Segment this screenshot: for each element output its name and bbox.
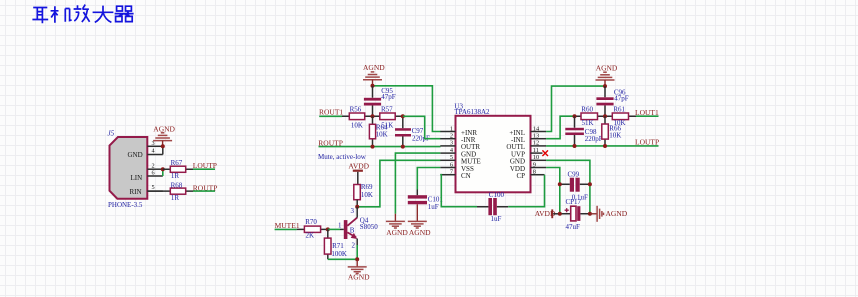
junction R66 bottom xyxy=(603,144,607,148)
resistor R68 xyxy=(147,182,193,202)
ground AGND pin4 xyxy=(386,214,409,237)
svg-text:7: 7 xyxy=(450,169,453,176)
title 耳机放大器 xyxy=(32,5,133,24)
svg-text:LOUTP: LOUTP xyxy=(635,138,659,147)
svg-text:220pF: 220pF xyxy=(585,135,603,143)
svg-text:10K: 10K xyxy=(361,191,373,199)
wire pin9 VDD down xyxy=(546,168,560,214)
power AVDD top xyxy=(348,162,369,185)
resistor R61 xyxy=(605,106,636,127)
junction R56/R57 xyxy=(371,114,375,118)
svg-text:9: 9 xyxy=(533,161,536,168)
svg-text:ROUT1: ROUT1 xyxy=(319,108,343,117)
ground AGND at J5 xyxy=(153,125,175,147)
svg-text:CP: CP xyxy=(516,172,525,180)
junction J5 pin3 xyxy=(161,144,165,148)
svg-text:AGND: AGND xyxy=(386,228,408,237)
transistor Q4 xyxy=(338,207,378,259)
capacitor C95 xyxy=(364,86,396,117)
junction R64 bottom xyxy=(371,145,375,149)
svg-text:1R: 1R xyxy=(171,194,180,202)
svg-text:6: 6 xyxy=(450,161,453,168)
svg-text:TPA6138A2: TPA6138A2 xyxy=(454,108,490,116)
power AVDD right xyxy=(535,209,560,218)
svg-text:R61: R61 xyxy=(613,106,625,114)
svg-text:R56: R56 xyxy=(350,106,362,114)
junction emitter/R71 xyxy=(355,257,359,261)
pin 4 GND xyxy=(440,147,476,159)
svg-text:PHONE-3.5: PHONE-3.5 xyxy=(108,201,143,209)
capacitor C96 xyxy=(596,86,628,116)
junction AGND top-right xyxy=(603,84,607,88)
pin 10 GND xyxy=(510,154,546,166)
junction J5 pin2 xyxy=(161,167,165,171)
svg-text:S8050: S8050 xyxy=(360,223,378,231)
svg-text:AGND: AGND xyxy=(363,63,385,72)
svg-text:R60: R60 xyxy=(581,106,593,114)
resistor R70 xyxy=(297,218,328,240)
ground AGND right of CP17 xyxy=(590,206,628,222)
svg-text:1: 1 xyxy=(450,125,453,132)
ground AGND below Q4 xyxy=(348,259,370,281)
svg-text:2: 2 xyxy=(352,241,356,249)
svg-text:R68: R68 xyxy=(171,182,183,190)
junction C96/R60/R61 xyxy=(603,114,607,118)
svg-text:12: 12 xyxy=(533,140,539,147)
IC U3 TPA6138A2 xyxy=(454,103,530,193)
svg-text:10K: 10K xyxy=(609,132,621,140)
junction C98 bottom xyxy=(573,144,577,148)
svg-text:AVDD: AVDD xyxy=(348,162,369,171)
wire R57 node to -INR xyxy=(403,116,441,138)
junction AGND top-left xyxy=(371,84,375,88)
svg-text:1uF: 1uF xyxy=(491,215,502,223)
svg-text:1R: 1R xyxy=(171,172,180,180)
resistor R57 xyxy=(373,106,403,130)
svg-text:10: 10 xyxy=(533,154,539,161)
node ROUT1 xyxy=(319,108,343,117)
svg-text:51K: 51K xyxy=(582,119,594,127)
capacitor C98 xyxy=(565,116,603,146)
svg-text:GND: GND xyxy=(128,151,143,159)
pin 14 +INL xyxy=(509,125,546,137)
wire pin4 GND down xyxy=(395,153,440,214)
pin 4 of J5 xyxy=(147,148,163,155)
pin 6 of J5 xyxy=(147,170,163,177)
resistor R66 xyxy=(602,116,622,146)
svg-text:14: 14 xyxy=(533,125,540,132)
resistor R56 xyxy=(342,106,373,130)
resistor R60 xyxy=(575,106,606,127)
svg-text:AGND: AGND xyxy=(409,228,431,237)
pin 6 VSS xyxy=(440,161,474,173)
node ROUTP wire xyxy=(318,138,440,147)
ground AGND top-left xyxy=(363,63,385,86)
node MUTE1 xyxy=(275,221,300,230)
svg-text:10K: 10K xyxy=(351,122,363,130)
wire R71 bottom to emitter xyxy=(328,258,357,260)
junction CP17 right xyxy=(588,212,592,216)
junction C98 top xyxy=(573,114,577,118)
wire pin10 GND down xyxy=(546,160,590,214)
svg-text:R71: R71 xyxy=(332,242,344,250)
svg-text:3: 3 xyxy=(450,140,453,147)
svg-text:47pF: 47pF xyxy=(614,95,629,103)
svg-text:R57: R57 xyxy=(381,106,393,114)
svg-text:RIN: RIN xyxy=(130,188,142,196)
wire pin13 -INL to R60 xyxy=(546,116,574,139)
pin 1 +INR xyxy=(440,125,477,137)
wire junction to Q4 base xyxy=(328,228,340,230)
svg-text:6: 6 xyxy=(152,170,155,177)
svg-text:CP17: CP17 xyxy=(566,198,582,206)
wire pin14 +INL to AGND xyxy=(546,86,605,131)
svg-text:R70: R70 xyxy=(305,218,317,226)
capacitor C101 xyxy=(408,190,444,212)
svg-text:13: 13 xyxy=(533,133,539,140)
wire pin2-pin6 tie xyxy=(162,169,164,176)
svg-text:C100: C100 xyxy=(489,191,505,199)
svg-text:LIN: LIN xyxy=(131,174,143,182)
svg-text:5: 5 xyxy=(152,184,155,191)
svg-text:C99: C99 xyxy=(568,170,580,178)
junction R70/R71 xyxy=(326,227,330,231)
pin 9 VDD xyxy=(510,161,546,173)
ground AGND top-right xyxy=(596,63,618,86)
capacitor C100 xyxy=(477,191,508,223)
svg-text:B: B xyxy=(350,227,355,235)
pin 5 MUTE xyxy=(440,154,481,166)
svg-text:11: 11 xyxy=(533,147,539,154)
pin 13 -INL xyxy=(511,133,546,145)
node LOUT1 xyxy=(635,108,659,117)
svg-text:3: 3 xyxy=(351,207,355,215)
pin 11 UVP no-connect xyxy=(511,147,548,159)
svg-text:CN: CN xyxy=(461,172,471,180)
wire pin7 CN to C100 xyxy=(440,175,477,207)
node LOUTP left xyxy=(193,161,217,170)
svg-text:1uF: 1uF xyxy=(428,203,439,211)
pin 2 of J5 xyxy=(147,162,163,169)
svg-text:AGND: AGND xyxy=(348,273,370,282)
junction AVDD/CP17 left xyxy=(558,212,562,216)
svg-text:R67: R67 xyxy=(171,159,183,167)
pin 12 OUTL xyxy=(506,140,546,152)
svg-text:10K: 10K xyxy=(376,130,388,138)
wire pin3-pin4 tie xyxy=(162,146,164,154)
resistor R69 xyxy=(354,183,373,207)
wire AGND to pin14-net and +INR xyxy=(373,86,441,132)
svg-text:AGND: AGND xyxy=(606,209,628,218)
svg-text:5: 5 xyxy=(450,154,453,161)
capacitor C97 xyxy=(395,116,430,146)
junction C99 right xyxy=(588,182,592,186)
svg-text:J5: J5 xyxy=(108,130,115,138)
pin 2 -INR xyxy=(440,133,475,145)
resistor R67 xyxy=(163,159,193,180)
junction C97 bottom xyxy=(401,145,405,149)
wire pin12 OUTL / LOUTP row xyxy=(546,145,658,147)
pin 3 of J5 xyxy=(147,140,163,147)
svg-text:Mute, active-low: Mute, active-low xyxy=(318,153,367,161)
svg-text:100K: 100K xyxy=(331,250,347,258)
svg-text:2K: 2K xyxy=(306,232,315,240)
pin 8 CP xyxy=(516,169,544,181)
svg-text:8: 8 xyxy=(533,169,536,176)
wire MUTE net to pin5 xyxy=(357,160,440,207)
svg-text:2: 2 xyxy=(450,133,453,140)
svg-text:R69: R69 xyxy=(361,183,373,191)
capacitor CP17 xyxy=(560,198,590,231)
wire C100 to pin8 CP xyxy=(508,175,544,207)
junction R57/C97 top xyxy=(401,114,405,118)
svg-text:2: 2 xyxy=(152,162,155,169)
svg-text:C97: C97 xyxy=(412,127,424,135)
capacitor C99 xyxy=(560,170,590,201)
pin 3 OUTR xyxy=(440,140,480,152)
svg-text:47pF: 47pF xyxy=(381,93,396,101)
svg-text:47uF: 47uF xyxy=(566,223,581,231)
resistor R71 xyxy=(324,229,347,259)
pin 5 of J5 xyxy=(147,184,163,191)
svg-text:AGND: AGND xyxy=(153,125,175,134)
pin 7 CN xyxy=(440,169,470,181)
junction C99 left xyxy=(558,182,562,186)
svg-text:1: 1 xyxy=(338,221,342,229)
connector J5 xyxy=(108,130,148,210)
ground AGND below C101 xyxy=(408,204,431,237)
wire pin6 VSS to C101 xyxy=(417,168,440,190)
junction R69/collector xyxy=(355,205,359,209)
resistor R64 xyxy=(369,116,388,146)
svg-text:AGND: AGND xyxy=(596,63,618,72)
node ROUTP left xyxy=(193,183,218,192)
